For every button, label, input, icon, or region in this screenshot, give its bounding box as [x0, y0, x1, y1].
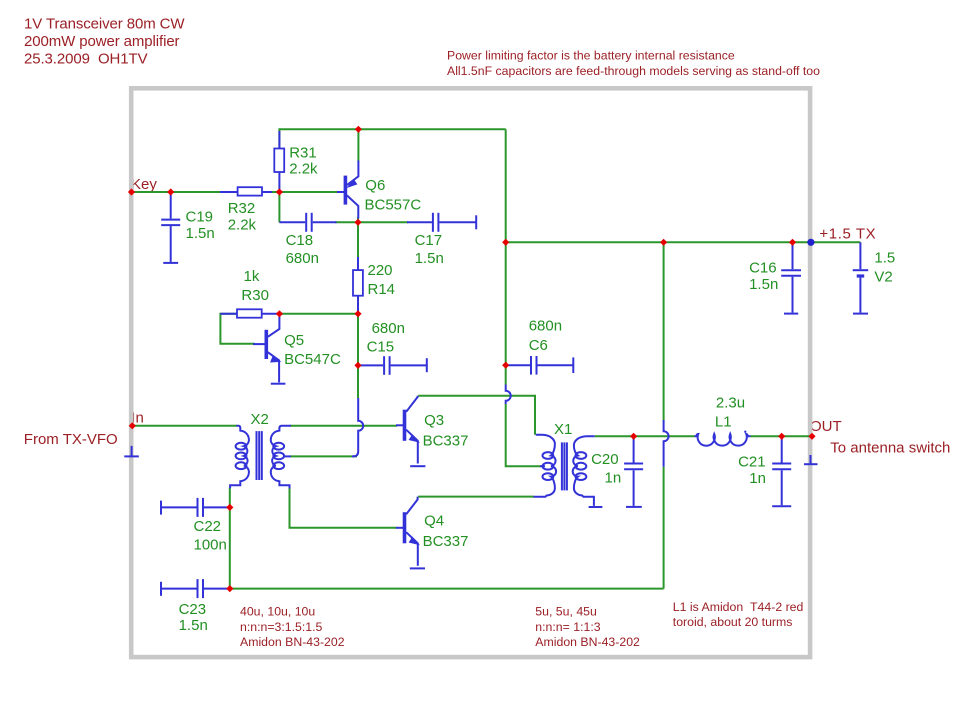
svg-text:All1.5nF capacitors are feed-t: All1.5nF capacitors are feed-through mod… — [447, 64, 820, 78]
svg-text:C23: C23 — [179, 601, 207, 618]
junction C21 top — [778, 433, 785, 440]
ground stub C17 — [475, 215, 477, 229]
capacitor C16 — [781, 242, 801, 312]
wire In to X2 primary — [132, 425, 238, 427]
capacitor C23 — [161, 579, 230, 598]
svg-text:Amidon BN-43-202: Amidon BN-43-202 — [535, 635, 640, 649]
capacitor C6 — [506, 356, 574, 375]
X1 primary center tap — [540, 465, 545, 467]
svg-text:5u, 5u, 45u: 5u, 5u, 45u — [535, 605, 597, 619]
svg-text:L1 is Amidon T44-2 red: L1 is Amidon T44-2 red — [673, 600, 804, 614]
ground stub Q3 emitter — [410, 465, 425, 467]
ground stub C21 — [772, 505, 791, 507]
transistor Q3 BC337 (NPN) — [396, 396, 419, 464]
transistor Q5 BC547C (NPN) — [253, 315, 280, 382]
wire right vertical below C6 junction to X1 center tap — [506, 404, 542, 466]
resistor R30 — [220, 309, 279, 317]
junction R31 base R32 — [276, 188, 283, 195]
wire Q6 emitter top to top rail — [357, 129, 359, 161]
junction C20 top — [630, 433, 637, 440]
svg-text:R31: R31 — [289, 144, 317, 161]
junction Q6 collector C18 row — [354, 219, 361, 226]
wire right vertical from +1.5 rail down — [663, 242, 665, 420]
X2 secondary winding — [271, 426, 291, 489]
capacitor C20 — [624, 436, 643, 506]
wire R14 junction down to C15 junction — [357, 314, 359, 366]
wire right lower vertical to bottom rail — [663, 467, 665, 589]
svg-text:n:n:n=3:1.5:1.5: n:n:n=3:1.5:1.5 — [240, 620, 323, 634]
node In terminal — [129, 422, 136, 429]
wire X2 center tap to vertical — [290, 455, 357, 457]
resistor R14 — [353, 257, 363, 311]
svg-text:1n: 1n — [605, 469, 622, 486]
ground stub V2 — [853, 313, 868, 315]
svg-text:200mW power amplifier: 200mW power amplifier — [24, 33, 180, 50]
ground stub In port — [124, 446, 139, 457]
ground stub C19 — [163, 262, 178, 264]
svg-text:R32: R32 — [228, 200, 256, 217]
wire X2 secondary top to Q3 base — [290, 425, 397, 427]
svg-text:2.2k: 2.2k — [289, 161, 318, 178]
svg-text:Power limiting factor is the b: Power limiting factor is the battery int… — [447, 48, 735, 62]
wire right vertical +1.5 feed — [505, 129, 507, 384]
ground stub OUT port — [804, 455, 818, 464]
wire hop at C15 vertical over Q3 base wire — [352, 398, 363, 456]
inductor L1 — [695, 431, 751, 446]
wire C15 junction down toward X2 center tap — [357, 365, 359, 398]
wire R30 left feedback loop — [220, 314, 255, 344]
svg-text:toroid, about 20 turms: toroid, about 20 turms — [673, 615, 793, 629]
svg-text:2.3u: 2.3u — [716, 395, 745, 412]
node +1.5 TX terminal dot — [807, 239, 814, 246]
svg-text:n:n:n= 1:1:3: n:n:n= 1:1:3 — [535, 620, 600, 634]
wire bottom +1.5 return rail — [230, 588, 664, 590]
ground stub Q4 emitter — [410, 567, 425, 569]
svg-text:Q6: Q6 — [365, 177, 385, 194]
svg-text:X1: X1 — [554, 421, 572, 438]
svg-text:BC337: BC337 — [423, 533, 469, 550]
border frame — [131, 88, 810, 657]
wire Q3 collector to X1 primary top — [418, 396, 535, 435]
svg-text:To antenna switch: To antenna switch — [830, 440, 950, 457]
wire X2 secondary bottom to Q4 base — [290, 488, 398, 528]
wire OUT row X1 secondary to L1 — [595, 435, 695, 437]
svg-text:Q4: Q4 — [424, 513, 444, 530]
svg-text:BC557C: BC557C — [365, 196, 422, 213]
wire hop at +1.5 vertical over Q3 collector wire — [506, 385, 511, 405]
capacitor C18 — [279, 213, 336, 232]
wire L1 to C21 junction to OUT — [751, 435, 813, 437]
resistor R32 — [220, 187, 272, 195]
svg-text:Amidon BN-43-202: Amidon BN-43-202 — [240, 635, 345, 649]
wire X2 primary bottom down through C22 C23 junctions — [229, 488, 231, 589]
wire hop at right vertical over OUT wire — [664, 420, 669, 467]
junction R30 right — [276, 310, 283, 317]
transformer X2 — [230, 426, 291, 489]
X2 primary winding — [230, 426, 249, 488]
junction +1.5 rail mid — [660, 239, 667, 246]
capacitor C17 — [407, 213, 476, 232]
svg-text:X2: X2 — [251, 411, 269, 428]
X1 secondary winding — [573, 436, 595, 506]
svg-text:25.3.2009 OH1TV: 25.3.2009 OH1TV — [24, 51, 148, 68]
svg-text:1.5n: 1.5n — [179, 617, 208, 634]
ground stub C15 — [426, 358, 428, 372]
svg-text:V2: V2 — [874, 269, 892, 286]
transformer X1 — [534, 435, 595, 506]
svg-text:40u, 10u, 10u: 40u, 10u, 10u — [240, 605, 315, 619]
svg-text:C20: C20 — [591, 451, 619, 468]
X2 core — [256, 431, 258, 480]
svg-text:100n: 100n — [194, 537, 227, 554]
wire Q4 collector to X1 primary bottom — [418, 496, 534, 498]
svg-text:From TX-VFO: From TX-VFO — [24, 431, 118, 448]
svg-text:1.5n: 1.5n — [749, 276, 778, 293]
svg-text:R30: R30 — [241, 287, 269, 304]
ground stub C6 — [572, 357, 574, 373]
X2 secondary center tap — [283, 455, 291, 457]
junction R14 bottom — [354, 310, 361, 317]
ground stub C20 — [626, 506, 642, 508]
junction top rail Q6 — [355, 126, 362, 133]
svg-text:Key: Key — [131, 176, 157, 193]
svg-text:1V Transceiver 80m CW: 1V Transceiver 80m CW — [24, 16, 185, 33]
svg-text:C21: C21 — [738, 453, 766, 470]
svg-text:C15: C15 — [367, 339, 395, 356]
junction +1.5 rail left — [502, 239, 509, 246]
node Key terminal — [128, 188, 135, 195]
svg-text:680n: 680n — [286, 250, 319, 267]
svg-text:1k: 1k — [244, 268, 260, 285]
svg-text:1.5n: 1.5n — [415, 250, 444, 267]
svg-text:220: 220 — [368, 262, 393, 279]
ground stub X1 secondary bottom — [589, 506, 603, 508]
svg-text:2.2k: 2.2k — [228, 216, 257, 233]
ground stub C16 — [784, 313, 798, 315]
ground stub Q5 emitter — [271, 383, 286, 385]
svg-text:680n: 680n — [372, 320, 405, 337]
junction C19 top — [167, 188, 174, 195]
svg-text:BC547C: BC547C — [284, 351, 341, 368]
resistor R31 — [274, 131, 284, 192]
capacitor C21 — [772, 436, 791, 505]
svg-text:C16: C16 — [749, 260, 777, 277]
wire Q6 collector junction down to R14 — [357, 217, 359, 259]
svg-text:Q5: Q5 — [284, 332, 304, 349]
wire R30 junction row horizontal — [279, 313, 358, 315]
svg-text:C18: C18 — [286, 232, 314, 249]
wire C18 to Q6 collector junction — [335, 221, 408, 223]
junction C6 left — [502, 362, 509, 369]
wire Key horizontal — [132, 191, 239, 193]
transistor Q4 BC337 (NPN) — [396, 497, 419, 566]
svg-text:+1.5 TX: +1.5 TX — [819, 225, 876, 242]
svg-text:Q3: Q3 — [424, 412, 444, 429]
svg-text:L1: L1 — [715, 413, 732, 430]
svg-text:1.5: 1.5 — [874, 250, 895, 267]
svg-text:680n: 680n — [529, 317, 562, 334]
svg-text:C6: C6 — [529, 337, 548, 354]
battery V2 — [853, 242, 869, 312]
svg-text:OUT: OUT — [810, 418, 842, 435]
ground stub C22 — [160, 501, 162, 515]
junction C15 left — [354, 362, 361, 369]
svg-text:C17: C17 — [415, 232, 443, 249]
svg-text:C19: C19 — [186, 209, 214, 226]
node OUT terminal — [808, 433, 815, 440]
wire R32 to Q6 base — [262, 191, 338, 193]
svg-text:1.5n: 1.5n — [186, 225, 215, 242]
junction C23 right bottom rail — [226, 585, 233, 592]
wire junction down to C18 row — [278, 192, 280, 222]
capacitor C15 — [358, 356, 427, 375]
ground stub C23 — [160, 582, 162, 596]
junction C22 right — [226, 504, 233, 511]
wire R14 bottom to R30 row junction — [357, 309, 359, 314]
wire +1.5 rail horizontal — [506, 241, 861, 243]
X1 primary winding — [534, 435, 557, 497]
capacitor C19 — [161, 192, 180, 262]
svg-text:R14: R14 — [368, 281, 396, 298]
transistor Q6 BC557C (PNP) — [337, 161, 358, 219]
svg-text:C22: C22 — [194, 518, 222, 535]
svg-text:1n: 1n — [749, 470, 766, 487]
X1 core — [561, 442, 563, 490]
junction C16 top — [789, 239, 796, 246]
svg-text:BC337: BC337 — [423, 432, 469, 449]
wire top rail from R31 to right vertical — [279, 129, 505, 148]
capacitor C22 — [161, 498, 230, 517]
